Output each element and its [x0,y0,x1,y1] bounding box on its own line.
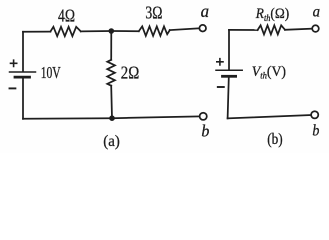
node: top junction dot [109,28,115,34]
wire: 3-ohm to terminal a [170,28,200,30]
wire: left vertical above battery [22,32,24,72]
minus sign of battery V1 [10,87,16,89]
svg-text:a: a [201,1,209,21]
svg-text:Vth(V): Vth(V) [252,63,286,80]
battery V_th top plate (long thin) [216,69,242,71]
minus sign of battery V_th [218,86,224,88]
terminal a of circuit (a) open circle [199,25,206,32]
terminal b of circuit (b) open circle [311,111,318,118]
wire: bottom of circuit (a) [23,116,200,118]
resistor R 2ohm vertical zigzag [107,60,115,86]
svg-text:10V: 10V [41,63,61,82]
resistor R 4ohm zigzag [50,27,80,36]
battery V1 bottom plate (short thick) [15,76,30,79]
svg-text:3Ω: 3Ω [145,2,162,22]
wire: 2-ohm down to bottom junction [110,86,113,119]
wire: 4-ohm to center junction [81,30,112,32]
resistor R 3ohm zigzag [139,26,170,35]
wire: circuit (b) left vertical above battery [228,30,230,70]
wire: left vertical below battery [22,78,24,119]
svg-text:(a): (a) [103,133,120,150]
node: bottom junction dot [109,115,115,121]
svg-text:b: b [201,122,209,141]
wire: circuit (b) top-left corner to R_th [229,29,258,31]
svg-text:b: b [312,122,319,139]
terminal a of circuit (b) open circle [312,25,319,32]
terminal b of circuit (a) open circle [200,113,207,120]
svg-text:a: a [313,3,321,20]
svg-text:2Ω: 2Ω [121,62,140,82]
plus sign of battery V_th [217,59,223,65]
wire: center junction to 3-ohm resistor [111,30,139,32]
wire: bottom of circuit (b) [228,115,312,118]
wire: junction down to 2-ohm resistor [110,31,112,60]
battery V1 top plate (long thin) [10,71,36,73]
resistor R_th zigzag [258,25,285,34]
svg-text:(b): (b) [267,131,282,148]
wire: R_th to terminal a of circuit (b) [285,29,312,30]
svg-text:Rth(Ω): Rth(Ω) [255,7,290,23]
svg-text:4Ω: 4Ω [58,6,75,26]
plus sign of battery V1 [11,60,17,66]
wire: circuit (a) top-left corner to 4-ohm resistor [23,31,50,33]
wire: circuit (b) left vertical below battery [228,77,229,118]
battery V_th bottom plate (short thick) [223,75,236,78]
